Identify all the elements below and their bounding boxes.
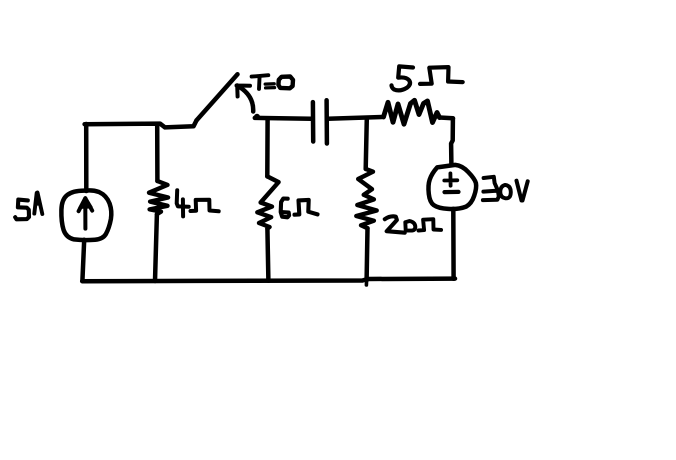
wire left vertical (source top): [84, 124, 89, 191]
resistor R4 5ohm zigzag: [384, 100, 440, 124]
resistor R2 6ohm zigzag: [257, 176, 278, 228]
wire top-left horizontal with switch lever step: [85, 120, 197, 127]
capacitor C1 right plate: [324, 100, 329, 143]
wire voltage source bottom: [451, 209, 456, 279]
label 5ohm: [392, 66, 414, 90]
annotation curved arrow for switch: [240, 87, 254, 112]
label T=0: [252, 75, 269, 89]
switch SW1 lever (open): [197, 74, 238, 120]
voltage source V1 30V: [428, 165, 476, 209]
label 20ohm: [385, 216, 405, 232]
node tick at 20ohm junction: [365, 280, 369, 285]
label 30V: [483, 177, 499, 200]
resistor R1 bottom wire: [155, 214, 157, 281]
wire right vertical to voltage source: [451, 119, 453, 166]
resistor R3 bottom wire: [364, 228, 369, 280]
resistor R1 4ohm zigzag: [149, 181, 168, 214]
V1 minus sign: [445, 190, 459, 194]
resistor R3 20ohm zigzag: [356, 169, 376, 228]
resistor R3 20ohm branch top wire: [366, 119, 367, 169]
wire capacitor to 5ohm: [328, 117, 384, 119]
wire 5ohm to corner: [440, 115, 454, 120]
current source I1 5A: [61, 190, 111, 240]
wire switch fixed contact to capacitor: [255, 116, 311, 121]
resistor R2 6ohm branch top wire: [265, 118, 270, 176]
V1 plus sign: [444, 173, 457, 185]
label 6ohm: [281, 199, 289, 218]
resistor R2 bottom wire: [267, 229, 268, 281]
capacitor C1 left plate: [311, 102, 316, 141]
wire current source bottom: [82, 240, 84, 281]
label 4ohm: [177, 190, 189, 216]
wire bottom rail: [82, 279, 455, 282]
current source arrow: [83, 202, 87, 229]
label 5A: [15, 200, 29, 220]
resistor R1 4ohm branch top wire: [155, 124, 160, 181]
